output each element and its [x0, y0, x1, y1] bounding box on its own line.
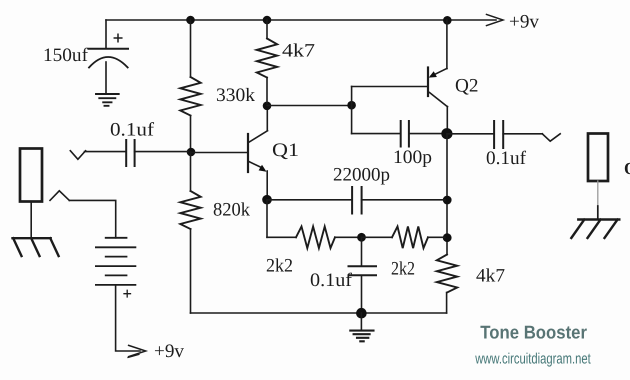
- resistor R 4k7 upper: [257, 39, 277, 78]
- transistor Q1 emitter diagonal with arrow: [249, 162, 262, 168]
- resistor R 2k2 right: [392, 227, 428, 249]
- node input (Q1 base node): [187, 148, 196, 157]
- wire battery to +9v arrow: [116, 285, 140, 351]
- svg-text:0.1uf: 0.1uf: [486, 148, 527, 169]
- node 2k2 right: [443, 233, 452, 242]
- ground earth bottom: [360, 313, 362, 330]
- svg-text:www.circuitdiagram.net: www.circuitdiagram.net: [474, 351, 591, 368]
- wire 820k bottom lead: [190, 229, 192, 313]
- wire 4k7 bottom lead to collector node: [266, 78, 268, 104]
- wire 330k bottom lead to input node: [190, 116, 192, 153]
- wire emitter node to 22000p: [267, 199, 352, 201]
- +9v arrow top: [487, 14, 504, 25]
- wire vertical at Q2 branch: [351, 87, 353, 134]
- wire collector node to Q2 branch node: [267, 105, 352, 107]
- svg-text:+9v: +9v: [509, 12, 540, 33]
- svg-text:330k: 330k: [216, 85, 256, 106]
- wire 330k top lead: [190, 20, 192, 77]
- capacitor 22000p: [352, 187, 362, 214]
- wire 0.1uf mid to ground node: [361, 275, 363, 313]
- resistor R 820k: [180, 191, 200, 229]
- output V connector: [542, 134, 560, 141]
- node Q1 collector: [263, 102, 272, 111]
- wire 2k2 b to right node: [428, 236, 445, 238]
- wire Q2 collector lead: [446, 107, 448, 134]
- wire input to cap: [85, 151, 127, 153]
- wire 150uf top lead: [105, 20, 107, 48]
- wire Q2 emitter lead to rail: [446, 20, 448, 69]
- svg-text:Tone Booster: Tone Booster: [480, 322, 587, 343]
- capacitor C 150uf curved plate: [89, 57, 128, 68]
- node 22000p right: [443, 196, 452, 205]
- svg-text:2k2: 2k2: [266, 256, 293, 277]
- transistor Q1 base bar: [247, 134, 249, 172]
- capacitor output 0.1uf: [494, 121, 503, 148]
- wire mid node to 2k2 b: [362, 236, 393, 238]
- input V connector: [70, 151, 85, 160]
- transistor Q1 base wire: [191, 152, 247, 154]
- svg-text:+9v: +9v: [154, 341, 185, 362]
- wire 4k7 top lead: [266, 20, 268, 39]
- transistor Q2 emitter diagonal (PNP arrow into base): [431, 68, 447, 76]
- wire 2k2 a to mid node: [335, 236, 359, 238]
- wire input jack to ground: [30, 202, 32, 239]
- wire switch to battery: [69, 200, 115, 237]
- svg-text:2k2: 2k2: [391, 259, 415, 280]
- svg-text:0.1uf: 0.1uf: [310, 270, 353, 291]
- input jack rectangle: [20, 149, 42, 202]
- node top rail junction B (4k7 branch): [263, 16, 272, 25]
- ground earth under 150uf: [96, 94, 119, 106]
- capacitor mid 0.1uf: [349, 266, 377, 275]
- output jack rectangle: [588, 134, 608, 182]
- svg-text:820k: 820k: [213, 200, 250, 221]
- node mid 2k2: [357, 233, 366, 242]
- svg-text:100p: 100p: [393, 147, 432, 168]
- wire Q1 emitter lead: [266, 171, 268, 196]
- svg-text:O: O: [624, 159, 630, 178]
- battery plus sign: [124, 290, 131, 297]
- resistor R 4k7 lower: [437, 255, 457, 293]
- switch contact lambda: [50, 191, 69, 201]
- wire to 2k2 a: [267, 236, 296, 238]
- wire output node to 0.1uf out: [447, 133, 494, 135]
- +9v arrow bottom: [129, 345, 146, 356]
- node output (Q2 collector junction): [441, 128, 452, 139]
- wire 100p to output node: [409, 133, 443, 135]
- svg-text:4k7: 4k7: [282, 41, 315, 62]
- capacitor input 0.1uf: [126, 140, 134, 166]
- ground chassis right: [571, 220, 619, 239]
- node Q1 emitter: [262, 195, 272, 205]
- wire 22000p to right node: [362, 199, 445, 201]
- resistor R 330k: [180, 77, 200, 116]
- wire 4k7 lower bottom lead: [446, 293, 448, 314]
- capacitor C 150uf plus sign: [114, 34, 122, 42]
- wire Q1 collector lead: [266, 107, 268, 131]
- svg-text:150uf: 150uf: [43, 45, 89, 66]
- wire emitter node down to 2k2 row: [266, 200, 268, 238]
- node top rail junction A (330k branch): [186, 16, 195, 25]
- wire 0.1uf out to connector: [503, 133, 542, 135]
- svg-text:Q1: Q1: [272, 140, 299, 161]
- transistor Q2 base bar: [427, 68, 429, 97]
- wire top +9v rail: [106, 19, 496, 21]
- wire output jack to ground: [597, 181, 599, 206]
- node ground junction: [356, 308, 367, 319]
- capacitor C 150uf positive plate: [89, 48, 128, 50]
- wire 150uf bottom lead: [105, 62, 107, 94]
- wire Q2 base: [352, 86, 427, 88]
- capacitor 100p: [401, 121, 409, 147]
- svg-text:4k7: 4k7: [476, 266, 505, 287]
- node top rail junction C (Q2 emitter): [443, 16, 452, 25]
- wire mid node down to 0.1uf mid: [361, 237, 363, 266]
- wire bottom rail: [191, 312, 447, 314]
- wire cap to input node: [135, 151, 188, 153]
- node Q2 base branch: [347, 101, 356, 110]
- wire to 100p cap: [352, 133, 401, 135]
- wire input node to 820k: [190, 152, 192, 191]
- svg-text:Q2: Q2: [455, 76, 479, 97]
- svg-text:0.1uf: 0.1uf: [110, 120, 155, 141]
- battery B1: [106, 238, 127, 276]
- transistor Q2 collector diagonal: [430, 93, 448, 107]
- resistor R 2k2 left: [296, 227, 335, 249]
- wire vertical output branch down: [446, 134, 448, 255]
- ground chassis left: [13, 238, 59, 256]
- transistor Q1 collector diagonal: [249, 131, 268, 143]
- svg-text:22000p: 22000p: [333, 165, 390, 186]
